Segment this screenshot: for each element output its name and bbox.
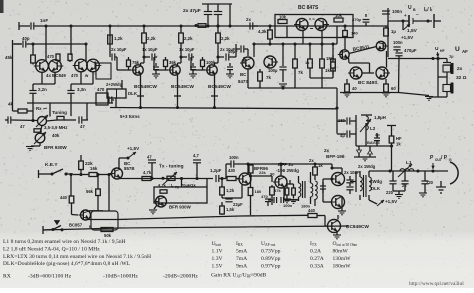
svg-text:1k: 1k [325, 68, 330, 73]
wire osc ground rail [27, 102, 113, 104]
capacitor C3 2,2n [29, 84, 47, 103]
capacitor 22uF [222, 198, 243, 207]
scan edge smudge top-left [0, 0, 4, 13]
transformer TR2 [299, 172, 313, 204]
label 1,5V [407, 28, 418, 34]
transistor Q4 BC849 [87, 59, 102, 72]
svg-text:−: − [416, 12, 419, 17]
resistor 1M af [326, 55, 335, 75]
wire q17 base [72, 214, 79, 217]
resistor 16k [89, 166, 112, 177]
capacitor pa2 [346, 187, 353, 194]
svg-text:-20dB=2000Hz: -20dB=2000Hz [163, 274, 198, 280]
svg-text:0.27A: 0.27A [310, 256, 324, 262]
wire mixer bottom box [291, 68, 337, 88]
label BC851L [352, 44, 371, 53]
label 4x BC849 [46, 73, 89, 78]
svg-text:-196 2Wdg: -196 2Wdg [276, 168, 299, 173]
wire q17 collector [89, 210, 103, 212]
capacitor 4u rx [337, 115, 356, 146]
svg-text:7k: 7k [298, 70, 303, 75]
svg-text:180mW: 180mW [333, 264, 352, 270]
potentiometer tuning [36, 110, 67, 127]
svg-text:1.5V: 1.5V [212, 264, 223, 270]
svg-text:4,3k: 4,3k [258, 29, 267, 34]
resistor 75k stage 1 [127, 57, 140, 70]
wire emitter stage 2 [174, 75, 181, 109]
label KEY [45, 162, 58, 168]
wire af pair [349, 47, 377, 64]
svg-text:1k: 1k [318, 163, 323, 168]
wire pa net [323, 164, 342, 208]
svg-text:70µH⁄1k: 70µH⁄1k [181, 183, 197, 188]
svg-text:0.89Vpp: 0.89Vpp [261, 256, 281, 262]
svg-text:40p: 40p [22, 36, 30, 41]
transformer TR3 3Wdg DLK [360, 171, 382, 200]
label BC549CW stage 1 [134, 84, 157, 90]
svg-text:2+2Wdg: 2+2Wdg [106, 82, 123, 87]
svg-text:847S: 847S [238, 79, 248, 84]
svg-text:1,2µF: 1,2µF [210, 168, 222, 173]
transistor BC549CW stage 2 [168, 65, 180, 75]
wire collector stage 1 [141, 57, 145, 65]
wire base stage 1 [117, 57, 131, 70]
ground osc [26, 147, 34, 151]
capacitor 10uF stage 1-2 [142, 47, 158, 61]
wire IF bus [252, 42, 337, 45]
ground af right [382, 93, 390, 97]
capacitor C8 [79, 116, 85, 129]
svg-text:857B: 857B [124, 166, 135, 171]
resistor 7k mixer [258, 69, 272, 88]
wire rail mid upper [88, 215, 308, 219]
svg-text:BAV33: BAV33 [367, 140, 380, 145]
wire q12 emitter [220, 177, 242, 198]
diode D3 BAV99 [368, 146, 373, 157]
capacitor 10uF in [112, 53, 117, 60]
wire driver node [249, 164, 281, 185]
resistor on rail [194, 24, 206, 28]
label Rx [36, 106, 47, 111]
varactor D1 BFR [34, 132, 46, 144]
capacitor 4,7 tx2 [193, 153, 201, 180]
svg-text:1.1V: 1.1V [212, 249, 223, 255]
transistor BC549CW stage 1 [131, 65, 143, 75]
resistor 440 bias [60, 175, 74, 215]
transistor Q14 BFP-196 PA1 [330, 173, 345, 186]
svg-text:K.E.Y: K.E.Y [45, 162, 58, 168]
transistor Q1 BC849 [34, 60, 49, 73]
capacitor 2x series [246, 17, 258, 30]
capacitor 180 rx [337, 117, 356, 124]
svg-text:32 Ω: 32 Ω [456, 75, 467, 81]
transistor Q9 BC849S [348, 67, 362, 79]
transistor Q2 BC849 [49, 60, 64, 73]
transistor Q6 mixer [264, 56, 278, 68]
svg-text:1x 10µF: 1x 10µF [142, 47, 158, 52]
svg-text:Rx: Rx [36, 106, 42, 111]
resistor q13 bias b [290, 184, 298, 203]
transistor Q7 BC851L [338, 50, 349, 59]
transformer TR1 470 [96, 87, 108, 105]
svg-text:3,3n: 3,3n [77, 87, 86, 92]
label 3,5-3,9 MHz [44, 125, 67, 130]
capacitor 2x47uF b [214, 4, 222, 28]
resistor R2 470 [47, 54, 72, 62]
svg-text:1,5k: 1,5k [226, 207, 235, 212]
wire key to base [69, 173, 89, 176]
trimmer tx [161, 172, 177, 185]
svg-text:DLK=DoubleHole (pig-nose) 4,6*: DLK=DoubleHole (pig-nose) 4,6*7,6*4mm 0,… [3, 260, 131, 267]
ground out right [436, 181, 446, 193]
resistor 36k stage 2 [164, 57, 177, 70]
svg-text:L1 8 turns 0,2mm enamel wire o: L1 8 turns 0,2mm enamel wire on Neosid 7… [3, 239, 126, 245]
transistor Q18 BFR93 [154, 196, 192, 210]
wire bfr96 collector [248, 164, 253, 173]
wire speaker left leg [429, 57, 447, 97]
transistor Q13 BFP-196 driver [273, 176, 287, 188]
label 2x 1Wdg [358, 164, 376, 169]
svg-text:BC 849S: BC 849S [358, 80, 378, 86]
wire q18 emitter ground [149, 205, 157, 214]
wire rail to box a [180, 177, 183, 187]
svg-text:2x: 2x [457, 66, 463, 72]
resistor 60 [384, 79, 397, 92]
svg-text:RX: RX [3, 274, 11, 280]
wire audio bottom rail [110, 108, 337, 109]
label BC549CW stage 2 [171, 84, 194, 90]
svg-text:16k: 16k [90, 166, 98, 171]
capacitor 470u on rail [352, 14, 369, 26]
capacitor speaker 1u [443, 63, 451, 66]
inductor L2 variable [360, 115, 386, 132]
svg-text:-3dB=600/1100 Hz: -3dB=600/1100 Hz [28, 274, 72, 280]
svg-text:470: 470 [97, 87, 105, 92]
svg-text:130mW: 130mW [333, 256, 352, 262]
wire Q2 collector vertical [70, 26, 72, 55]
svg-text:BC549CW: BC549CW [171, 84, 194, 90]
transistor Q3 BC849 [73, 59, 88, 72]
wire af base feed [349, 63, 370, 73]
resistor 2,2k stage 3 [216, 26, 230, 59]
svg-text:0.97Vpp: 0.97Vpp [261, 264, 281, 270]
transistor Q12 BFR96 [237, 173, 251, 185]
label BFR96 [254, 166, 275, 177]
resistor 2,2k stage 2 [179, 26, 193, 59]
svg-text:+1,5V: +1,5V [401, 35, 414, 40]
antenna jack arc [450, 162, 458, 184]
inductor LTX [315, 181, 317, 206]
box bottom mid [91, 211, 118, 230]
wire mixer out vertical [335, 88, 338, 133]
capacitor C7 [5, 116, 25, 129]
label 2x 32ohm [456, 66, 467, 81]
resistor 140 af [343, 31, 359, 51]
svg-text:5+3 türns: 5+3 türns [120, 114, 140, 119]
resistor 2,2k stage 1 [142, 26, 156, 59]
capacitor C5 out [109, 96, 114, 103]
svg-text:1k: 1k [396, 142, 401, 147]
wire emitter stage 3 [211, 75, 218, 109]
svg-text:1nF: 1nF [40, 18, 48, 23]
resistor 140 [345, 79, 358, 93]
svg-text:22µF: 22µF [233, 202, 243, 207]
IF block frame [275, 15, 353, 38]
label gate marks [309, 19, 315, 29]
resistor R1 45k [5, 42, 35, 64]
svg-text:40µF: 40µF [228, 49, 238, 54]
capacitor 10uF out [218, 44, 236, 61]
svg-text:47: 47 [20, 124, 25, 129]
svg-text:2x 10nF: 2x 10nF [344, 170, 360, 175]
wire af ground rail [340, 92, 399, 94]
svg-text:L2: L2 [370, 126, 376, 131]
wire af link [343, 24, 346, 30]
capacitor 220 out a [386, 171, 397, 195]
wire q16 net [333, 215, 341, 239]
svg-text:Iₑ/ Iₗ: Iₑ/ Iₗ [424, 7, 432, 13]
svg-text:470: 470 [47, 54, 55, 59]
loop pair2 feedback box [96, 63, 111, 79]
switch +1,5V main [401, 19, 414, 40]
wire emitter bus [33, 72, 93, 84]
label 2x BFP-196 pa [324, 148, 345, 159]
svg-text:LRX=LTX 30 turns 0,14 mm ename: LRX=LTX 30 turns 0,14 mm enamel wire on … [3, 254, 151, 260]
svg-text:U: U [435, 46, 439, 52]
resistor R3 4k [8, 102, 33, 114]
svg-text:50k: 50k [104, 233, 112, 238]
capacitor 40uF mixer in [228, 45, 248, 56]
resistor bank d and out [331, 44, 336, 78]
capacitor 4p rx [374, 132, 380, 145]
capacitor 1,2uF [210, 168, 226, 182]
label IE/I3 [424, 7, 441, 28]
svg-text:HF: HF [440, 49, 445, 53]
capacitor pa in [320, 182, 326, 193]
ground mixer [279, 84, 287, 88]
svg-text:0.73Vpp: 0.73Vpp [261, 249, 281, 255]
node audio stage 2 [179, 24, 182, 27]
node rail junctions [44, 24, 87, 45]
wire supply caps right [228, 4, 231, 28]
resistor 1,2k [220, 184, 235, 198]
wire q11 collector [118, 158, 120, 169]
wire left input vertical [13, 40, 22, 111]
svg-text:2,2k: 2,2k [221, 36, 230, 41]
transistor U1b BC847S [315, 19, 329, 31]
resistor 56k bias [86, 175, 100, 212]
svg-text:1,2k: 1,2k [114, 36, 123, 41]
label 2x 10uF in [111, 47, 127, 52]
svg-text:BFR 930W: BFR 930W [169, 205, 192, 210]
capacitor C2 40p [14, 36, 32, 48]
svg-text:45k: 45k [5, 55, 13, 60]
transistor Q15 BFP-196 PA2 [330, 196, 345, 209]
wire mixer emitters [244, 44, 291, 88]
svg-text:1k: 1k [305, 60, 310, 65]
switch S1 key [39, 169, 74, 178]
label TX-tuning [159, 164, 184, 170]
transistor U1a BC847S [294, 19, 308, 31]
svg-text:BC857: BC857 [69, 223, 83, 228]
resistor 430 tx [227, 168, 239, 181]
label 100u [268, 68, 278, 73]
wire pa out [350, 171, 356, 192]
svg-text:7mA: 7mA [236, 256, 247, 262]
label BFP-196 2x [276, 162, 299, 173]
wire varactor [31, 126, 42, 147]
battery B1 [388, 12, 432, 27]
ground out left [395, 191, 403, 198]
resistor 22k [79, 155, 93, 174]
svg-text:AF: AF [462, 49, 468, 54]
diode D2 BAV99 [357, 140, 381, 157]
switch +1,5V tx [119, 146, 140, 160]
capacitor 2x47uF a [183, 4, 232, 28]
resistor bank b [305, 44, 312, 78]
resistor 1u bat [384, 26, 397, 36]
wire rail bottom [43, 226, 348, 230]
wire IF block down [287, 26, 337, 45]
svg-text:-10dB=1600Hz: -10dB=1600Hz [103, 274, 138, 280]
svg-text:22k: 22k [259, 170, 266, 175]
wire q8 to q10 [386, 51, 388, 68]
svg-text:470: 470 [71, 73, 79, 78]
svg-text:0.33A: 0.33A [310, 264, 324, 270]
resistor HF 1k [387, 126, 402, 172]
svg-text:100n: 100n [229, 155, 239, 160]
svg-text:470µ: 470µ [352, 17, 362, 22]
wire rail to box b [206, 179, 208, 188]
svg-text:80mW: 80mW [333, 249, 349, 255]
svg-text:0.2A: 0.2A [310, 249, 321, 255]
svg-text:440: 440 [308, 208, 316, 213]
svg-text:2x: 2x [246, 17, 251, 22]
svg-text:DLK: DLK [371, 186, 381, 191]
wire base stage 3 [191, 57, 205, 70]
svg-text:4x BC849: 4x BC849 [46, 73, 66, 78]
transistor Q5 mixer [240, 57, 254, 69]
ground pa [338, 208, 346, 215]
svg-text:40: 40 [352, 86, 357, 91]
wire speaker feed [446, 59, 448, 63]
svg-text:9mA: 9mA [236, 264, 247, 270]
svg-text:L2 1,8 uH Neosid 7A-04, Q=110: L2 1,8 uH Neosid 7A-04, Q=110 / 10 MHz [3, 247, 100, 253]
wire collector stage 3 [215, 57, 219, 65]
svg-text:BC: BC [240, 72, 247, 77]
capacitor mixer bypass [279, 44, 286, 82]
capacitor 22 out [393, 171, 409, 191]
wire tx rail [119, 178, 213, 180]
resistor bank 1k [320, 44, 331, 78]
resistor 50k [101, 228, 113, 239]
transistor Q16 BC849CW [326, 220, 341, 233]
speaker LS1 [443, 63, 454, 74]
svg-text:5mA: 5mA [236, 249, 247, 255]
capacitor 10uF stage 2-3 [179, 47, 195, 61]
wire tr2 bottom [284, 188, 311, 209]
svg-text:1,8µH: 1,8µH [374, 115, 386, 120]
svg-text:1µ: 1µ [449, 54, 454, 59]
wire speaker series [438, 65, 447, 97]
capacitor 100n tx [226, 155, 332, 179]
svg-text:http://www.qsl.net/va3iul: http://www.qsl.net/va3iul [409, 281, 464, 287]
svg-text:2,2n: 2,2n [38, 87, 47, 92]
wire Q1 collector vertical [45, 26, 47, 61]
svg-text:1x 10µF: 1x 10µF [179, 47, 195, 52]
resistor small vfo [34, 129, 60, 138]
switch S2 bottom [43, 221, 64, 235]
ground af left [343, 93, 351, 97]
resistor 1,5k [220, 202, 235, 215]
node audio stage 3 [216, 24, 219, 27]
resistor 4,7k tx [142, 170, 152, 181]
svg-text:1M: 1M [326, 56, 332, 61]
wire battery vertical [387, 8, 389, 57]
box mid osc [154, 183, 207, 204]
label Pout/PG [430, 155, 452, 169]
svg-text:4k: 4k [8, 102, 14, 107]
switch +1,5V pa [369, 199, 398, 206]
label 5+3 turns [120, 114, 140, 119]
svg-text:470µF: 470µF [404, 48, 417, 53]
capacitor 220 out b [419, 171, 434, 197]
svg-text:56k: 56k [86, 189, 94, 194]
transistor BC549CW stage 3 [205, 65, 217, 75]
wire ant line [369, 169, 448, 172]
svg-text:4,7: 4,7 [193, 153, 199, 158]
svg-text:BFP-196: BFP-196 [326, 154, 345, 159]
svg-text:4,7k: 4,7k [143, 170, 152, 175]
wire audio input vertical [108, 24, 111, 57]
transformer DLK double box [107, 80, 138, 108]
svg-text:100n: 100n [393, 40, 403, 45]
ground rx diodes [354, 157, 376, 161]
resistor 47k tx [270, 185, 282, 205]
wire rx in [281, 86, 284, 89]
wire rx filter net [356, 123, 390, 146]
label BC 847S [298, 5, 319, 11]
wire base stage 2 [154, 57, 168, 70]
wire q13 top bias [287, 180, 294, 184]
label BFR 930W [44, 145, 67, 150]
capacitor bypass stage 1 [152, 63, 160, 78]
svg-text:BC549CW: BC549CW [208, 84, 231, 90]
wire key box drop [108, 175, 110, 212]
svg-text:U: U [408, 5, 412, 11]
wire osc rail [32, 43, 87, 45]
svg-text:1µ: 1µ [391, 29, 396, 34]
transistor Q11 BC857B [110, 161, 135, 179]
svg-text:DLK: DLK [128, 91, 138, 96]
svg-text:1.3V: 1.3V [212, 256, 223, 262]
svg-text:140: 140 [351, 31, 358, 36]
svg-text:470: 470 [261, 194, 268, 199]
svg-text:2,2k: 2,2k [147, 36, 156, 41]
label UAF probe [449, 46, 468, 59]
wire tuning row [12, 119, 89, 122]
svg-text:10k: 10k [279, 15, 287, 20]
transistor Q17 BC857B b [69, 210, 92, 229]
svg-text:40k: 40k [52, 133, 60, 138]
capacitor 100n series pair [268, 197, 299, 208]
transistor Q10 BC849S [376, 67, 390, 79]
label 2+2Wdg [106, 82, 123, 87]
label 2x10nF [344, 170, 360, 175]
svg-text:440: 440 [60, 195, 68, 200]
speaker LS2 [443, 83, 454, 94]
resistor q13 bias a [283, 184, 291, 203]
